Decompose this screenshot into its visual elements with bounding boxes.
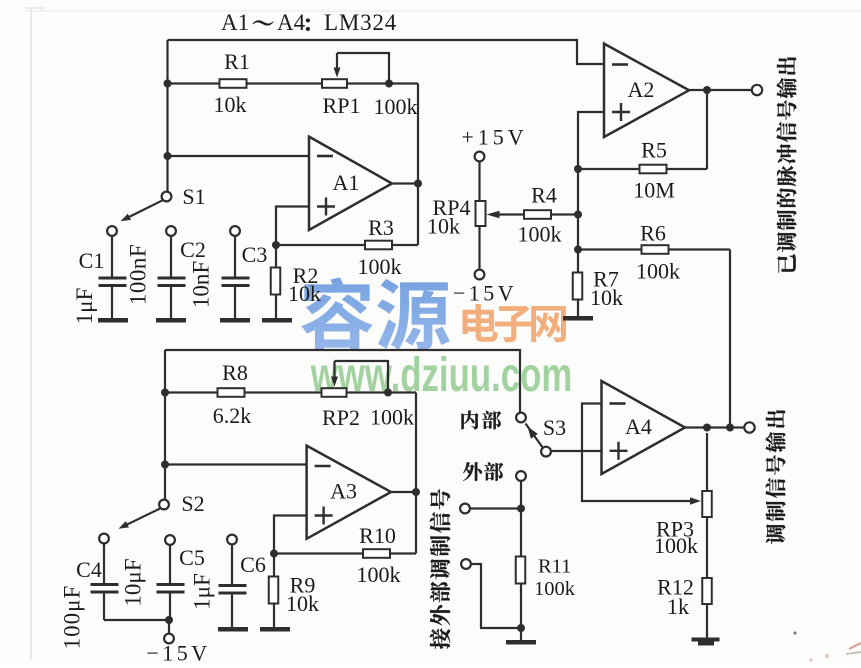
- op-amp A1: [309, 137, 392, 230]
- wire A4 output: [685, 426, 745, 428]
- ground for C2: [156, 318, 186, 323]
- wire external contact down: [520, 481, 522, 509]
- output terminal modulation signal: [744, 422, 754, 432]
- external input terminal 2: [461, 559, 471, 569]
- svg-text:R6: R6: [640, 221, 666, 246]
- svg-text:100k: 100k: [370, 405, 414, 430]
- svg-text:RP2: RP2: [322, 405, 360, 430]
- wire left rail: [166, 40, 168, 192]
- node junction left rail / A1 inverting row: [164, 152, 172, 160]
- ground for R9: [260, 627, 290, 632]
- svg-text:R10: R10: [359, 523, 396, 548]
- wire left rail bottom: [164, 350, 166, 500]
- output terminal modulated pulse: [752, 85, 762, 95]
- svg-text:10k: 10k: [590, 285, 623, 310]
- svg-text:−15V: −15V: [146, 641, 210, 664]
- power -15V terminal bottom: [168, 620, 170, 634]
- node junction left rail / A3 inverting row: [161, 461, 169, 469]
- switch S3 internal contact: [516, 413, 526, 423]
- svg-text:+15V: +15V: [461, 125, 527, 150]
- wire R3 row left: [276, 244, 366, 246]
- wire A1 output: [392, 182, 418, 184]
- svg-text:RP1: RP1: [323, 93, 361, 118]
- node junction A2 output: [703, 86, 711, 94]
- svg-text:A3: A3: [330, 479, 357, 504]
- switch S2: [159, 500, 169, 510]
- svg-text:10μF: 10μF: [121, 558, 146, 606]
- wire A4 inverting input feedback to RP3 wiper: [582, 404, 692, 502]
- wire A3 output: [391, 491, 416, 493]
- node junction external input / R11: [517, 505, 525, 513]
- svg-text:S1: S1: [182, 184, 205, 209]
- op-amp A2: [604, 44, 689, 137]
- svg-text:C3: C3: [242, 242, 268, 267]
- label connect external modulation signal: [430, 489, 450, 649]
- svg-text:100k: 100k: [357, 562, 401, 587]
- ground for C3: [220, 318, 250, 323]
- svg-text:−15V: −15V: [453, 281, 517, 306]
- node junction R11 bottom: [517, 624, 525, 632]
- svg-text:100k: 100k: [518, 222, 562, 247]
- svg-text:C4: C4: [76, 557, 102, 582]
- wire R1 to RP1: [247, 82, 323, 84]
- node junction R4 row: [574, 211, 582, 219]
- resistor R8 6.2k: [218, 388, 245, 397]
- resistor R5 10M: [578, 168, 640, 170]
- svg-text:10k: 10k: [288, 281, 321, 306]
- op-amp A3: [307, 446, 391, 539]
- svg-text:C2: C2: [180, 237, 206, 262]
- node junction R6 row: [574, 246, 582, 254]
- node junction A4 output / RP3: [703, 424, 711, 432]
- external input terminal 1: [460, 504, 470, 514]
- ground for R2: [262, 318, 292, 323]
- switch S1: [162, 192, 172, 202]
- svg-text:100k: 100k: [374, 94, 418, 119]
- svg-text:C5: C5: [179, 545, 205, 570]
- svg-text:A2: A2: [628, 77, 655, 102]
- svg-text:C6: C6: [240, 552, 266, 577]
- svg-text:R5: R5: [641, 138, 667, 163]
- svg-text:S2: S2: [181, 491, 204, 516]
- resistor R10 100k: [363, 549, 390, 558]
- svg-text:1k: 1k: [667, 594, 689, 619]
- svg-text:A4: A4: [277, 10, 306, 35]
- potentiometer RP3 100k: [706, 433, 708, 491]
- potentiometer RP2 100k: [322, 388, 347, 397]
- resistor R6 100k: [578, 248, 641, 250]
- wire A3 inverting input row: [165, 463, 307, 465]
- node junction left rail / R8 row: [161, 389, 169, 397]
- node junction left rail / R1 row: [164, 80, 172, 88]
- svg-text:A1: A1: [333, 170, 360, 195]
- wire A1 inverting input row: [168, 155, 310, 157]
- wire R10 to right vertical: [390, 552, 416, 554]
- capacitor C5 10uF: [165, 535, 175, 545]
- svg-text:R1: R1: [224, 49, 250, 74]
- svg-text:100k: 100k: [636, 259, 680, 284]
- svg-text:A4: A4: [625, 414, 652, 439]
- svg-text:R8: R8: [222, 360, 248, 385]
- wire top feedback (node to A2 inverting input): [168, 40, 605, 64]
- node junction A1 output: [414, 180, 422, 188]
- svg-text:R11: R11: [538, 556, 571, 578]
- wire C4 bottom to -15V node: [104, 619, 169, 621]
- ground for R7: [563, 316, 593, 321]
- node junction C4/C5 -15V: [165, 616, 173, 624]
- wire A2 output to terminal: [689, 89, 752, 91]
- wire S3 wiper to A4 non-inverting input: [551, 450, 602, 452]
- ground for R11: [506, 640, 536, 645]
- wire R1 row left: [168, 82, 221, 84]
- potentiometer RP4 10k: [475, 152, 485, 162]
- svg-text:10k: 10k: [214, 92, 247, 117]
- resistor R12 1k: [702, 578, 712, 604]
- label modulated pulse signal output: [777, 57, 797, 273]
- wire R8 to RP2: [245, 391, 322, 393]
- wire right vertical (RP2 row to R10 row via A3 output): [415, 393, 417, 554]
- svg-text:S3: S3: [543, 415, 566, 440]
- svg-text:1μF: 1μF: [72, 288, 97, 325]
- capacitor C6 1uF: [227, 535, 237, 545]
- svg-text:10k: 10k: [427, 214, 460, 239]
- svg-text:100k: 100k: [534, 578, 576, 600]
- wire right vertical (RP1 row to R3 row via A1 output): [417, 84, 419, 246]
- svg-text:100k: 100k: [654, 533, 698, 558]
- wire R10 row left: [274, 552, 364, 554]
- capacitor C1 1uF: [107, 226, 117, 236]
- svg-text:C1: C1: [79, 248, 105, 273]
- node junction A3 output: [412, 488, 420, 496]
- svg-text:R4: R4: [531, 183, 557, 208]
- svg-text:100nF: 100nF: [126, 244, 151, 305]
- wire R6 to A4 output node: [729, 250, 731, 428]
- wire R8 row left: [165, 391, 218, 393]
- capacitor C3 10nF: [230, 226, 240, 236]
- svg-text:10k: 10k: [286, 591, 319, 616]
- wire A1 non-inverting input to R3/R2 node: [276, 207, 309, 246]
- switch S3 external contact: [516, 471, 526, 481]
- op-amp A4: [602, 381, 686, 474]
- wire terminal1 to R11 top: [470, 507, 521, 509]
- ground for C1: [98, 318, 128, 323]
- resistor R9 10k: [273, 554, 275, 578]
- resistor R2 10k: [275, 245, 277, 267]
- resistor R3 100k: [365, 241, 392, 250]
- wire R3 to right vertical: [392, 244, 418, 246]
- label internal (neibu): [461, 411, 478, 430]
- wire A3 non-inverting input to R9/R10 node: [274, 516, 307, 554]
- resistor R1 10k: [220, 79, 247, 88]
- switch S3 blade and wiper: [526, 424, 544, 449]
- node junction A4 output / R6: [726, 424, 734, 432]
- capacitor C2 100nF: [166, 226, 176, 236]
- node junction R2/R3/A1+: [272, 241, 280, 249]
- label modulation signal output: [766, 410, 786, 544]
- svg-text:100μF: 100μF: [60, 585, 85, 650]
- resistor R7 10k: [577, 271, 579, 273]
- svg-text:100k: 100k: [358, 254, 402, 279]
- capacitor C4 100uF: [99, 534, 109, 544]
- resistor R4 100k: [524, 210, 551, 219]
- label external (waibu): [463, 462, 482, 481]
- wire hysteresis node vertical: [577, 169, 579, 272]
- wire R11 bottom to ground: [520, 628, 522, 640]
- svg-text:10M: 10M: [633, 178, 675, 203]
- node junction R9/R10/A3+: [270, 550, 278, 558]
- svg-text:LM324: LM324: [324, 10, 397, 35]
- resistor R11 100k: [520, 509, 522, 558]
- ground for C6: [218, 627, 248, 632]
- svg-text:1μF: 1μF: [190, 573, 215, 610]
- svg-text:A1: A1: [221, 10, 249, 35]
- potentiometer RP1 100k: [322, 79, 347, 88]
- wire terminal2 to R11 bottom: [471, 564, 521, 628]
- node junction RP2 wiper tie: [384, 389, 392, 397]
- svg-text:10nF: 10nF: [189, 261, 214, 308]
- wire bottom feedback top (node to S3 internal contact): [165, 350, 520, 413]
- svg-text:6.2k: 6.2k: [213, 403, 252, 428]
- ground for R12: [692, 638, 720, 642]
- svg-text:R3: R3: [368, 215, 394, 240]
- wire RP1 row to right vertical: [347, 82, 418, 84]
- wire RP2 row to right vertical: [347, 391, 417, 393]
- node junction RP1 wiper tie: [385, 80, 393, 88]
- wire A2 non-inverting input down: [578, 112, 604, 169]
- node junction R5 left: [574, 165, 582, 173]
